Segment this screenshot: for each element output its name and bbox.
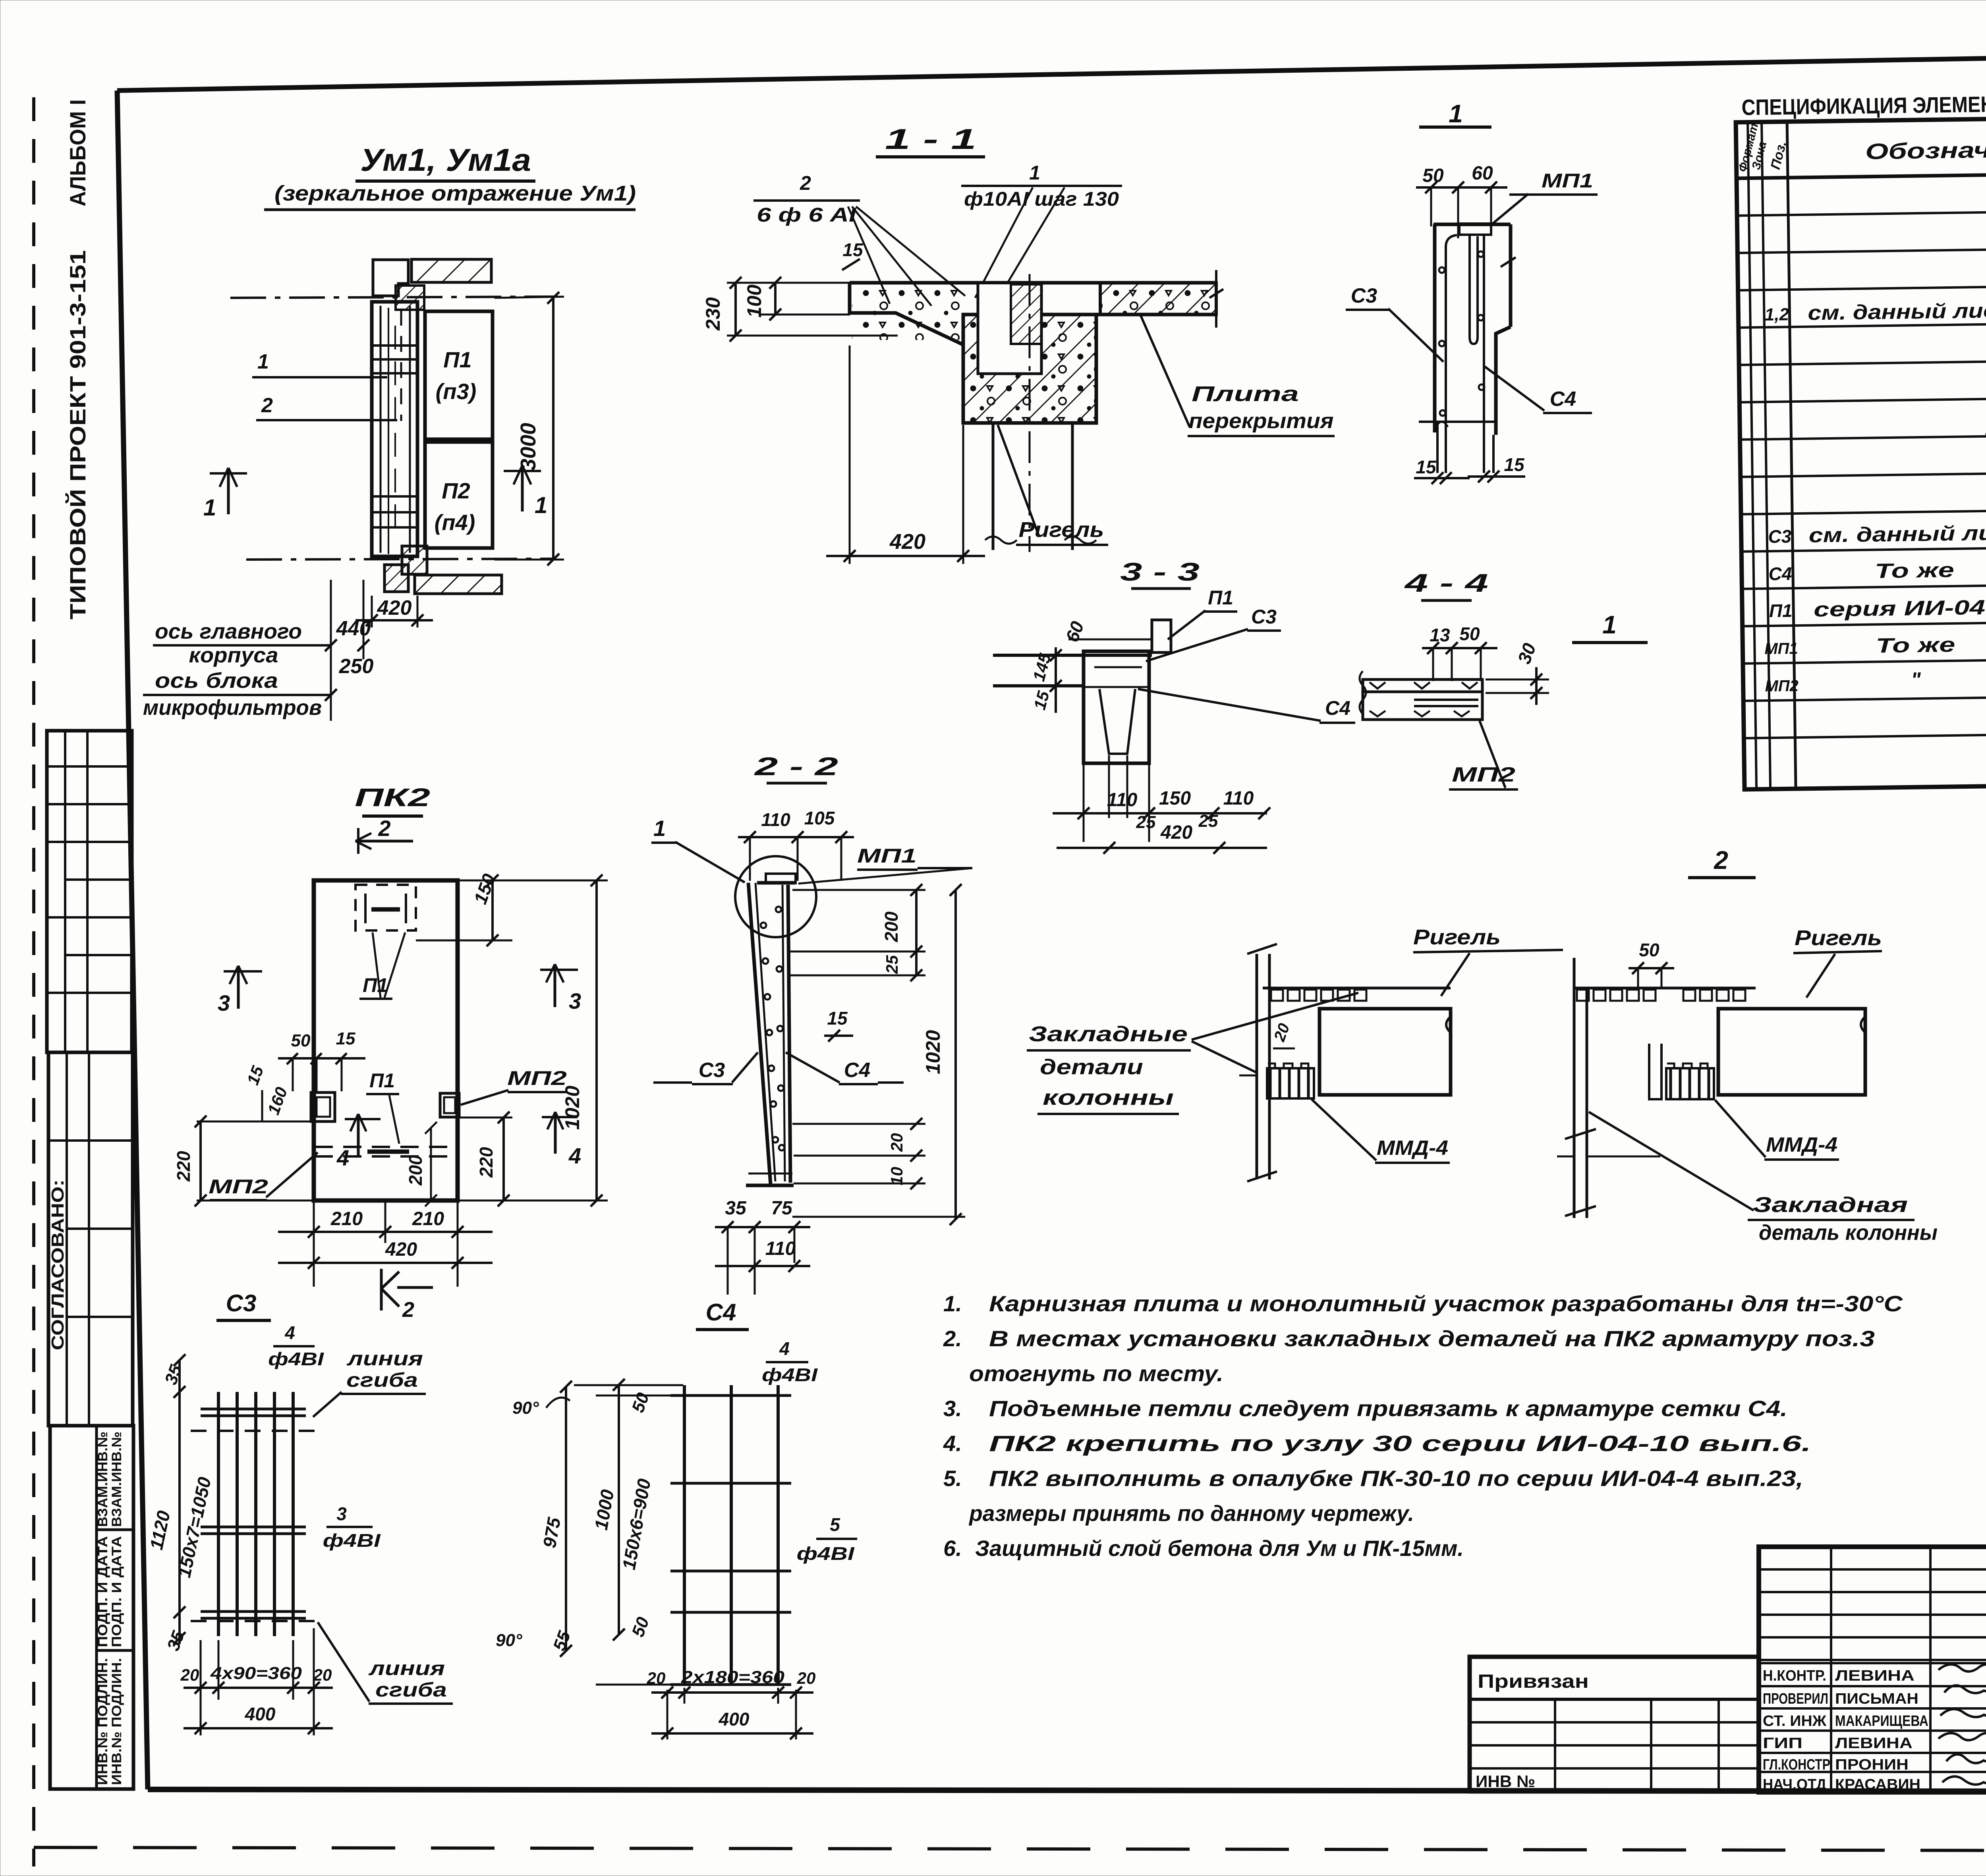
embed plate MP2 drawing <box>1360 671 1482 720</box>
svg-text:440: 440 <box>336 617 371 640</box>
svg-text:6.: 6. <box>943 1536 962 1561</box>
svg-text:Ум1, Ум1а: Ум1, Ум1а <box>360 142 531 178</box>
svg-text:20: 20 <box>313 1666 332 1684</box>
dim 230 <box>702 277 898 342</box>
panel section 2-2 <box>746 874 796 1185</box>
svg-text:П2: П2 <box>442 478 470 503</box>
monolith cornice outline <box>850 283 1216 423</box>
svg-text:Защитный слой бетона для Ум и: Защитный слой бетона для Ум и ПК-15мм. <box>975 1536 1464 1561</box>
svg-text:Подъемные петли следует привяз: Подъемные петли следует привязать к арма… <box>989 1396 1787 1421</box>
svg-text:линия: линия <box>346 1347 423 1370</box>
cornice bottom hatched small <box>402 546 427 574</box>
axis text os bloka mikrofiltrov <box>143 580 373 721</box>
svg-text:С4: С4 <box>706 1299 736 1326</box>
bottom dims 210 210 420 <box>278 1202 493 1287</box>
svg-text:2х180=360: 2х180=360 <box>681 1668 785 1687</box>
c4 mesh wires <box>670 1395 791 1685</box>
rigel block d2 <box>1718 1009 1865 1095</box>
rotated project text <box>65 250 90 620</box>
svg-text:1: 1 <box>1029 162 1040 184</box>
dim 420 bottom of section <box>826 345 985 564</box>
leader 2 <box>256 394 397 420</box>
c4 mesh bars <box>684 1385 778 1686</box>
svg-text:П1: П1 <box>363 974 388 996</box>
svg-text:колонны: колонны <box>1043 1086 1174 1110</box>
svg-text:Закладные: Закладные <box>1029 1022 1188 1046</box>
svg-text:ось главного: ось главного <box>155 620 302 643</box>
svg-text:50: 50 <box>1639 940 1660 960</box>
svg-text:3 - 3: 3 - 3 <box>1120 558 1200 586</box>
label MMD-4 d2 <box>1715 1100 1839 1160</box>
svg-text:сгиба: сгиба <box>346 1369 418 1391</box>
slab 3-3 <box>993 651 1152 763</box>
svg-text:1: 1 <box>257 350 269 373</box>
svg-text:3000: 3000 <box>516 423 540 471</box>
svg-text:сгиба: сгиба <box>375 1679 447 1701</box>
left small grid rows <box>1759 1568 1986 1571</box>
label MP1 <box>1490 170 1598 226</box>
svg-text:ПК2 крепить по узлу 30 серии И: ПК2 крепить по узлу 30 серии ИИ-04-10 вы… <box>989 1431 1811 1456</box>
svg-text:С3: С3 <box>699 1059 725 1082</box>
svg-text:20: 20 <box>647 1669 666 1687</box>
svg-text:3.: 3. <box>943 1396 962 1421</box>
title Um1 Um1a <box>264 142 636 210</box>
dims 50 60 <box>1416 163 1507 238</box>
title 4-4 <box>1404 569 1488 600</box>
svg-text:1: 1 <box>653 816 666 841</box>
svg-text:3: 3 <box>218 990 230 1015</box>
precast notch step <box>978 284 1041 374</box>
rotated small dims 15 160 <box>243 1063 291 1122</box>
svg-text:1020: 1020 <box>922 1030 944 1074</box>
svg-text:см. данный лист: см. данный лист <box>1808 521 1986 547</box>
svg-text:15: 15 <box>1416 457 1437 477</box>
svg-text:(зеркальное отражение Ум1): (зеркальное отражение Ум1) <box>274 181 636 205</box>
MP1 plate and anchor <box>1459 224 1491 344</box>
channel profile <box>1419 224 1516 473</box>
svg-text:2: 2 <box>800 172 811 194</box>
c3 mesh bars <box>218 1392 293 1636</box>
leader fan lines <box>848 187 1064 306</box>
c3 mesh wires <box>201 1409 306 1618</box>
svg-text:110: 110 <box>1107 789 1138 811</box>
svg-text:Ригель: Ригель <box>1019 518 1104 542</box>
svg-text:4: 4 <box>284 1322 295 1343</box>
dims 13 50 <box>1422 623 1497 681</box>
dims 15 15 bottom <box>1414 454 1525 484</box>
margin table upper <box>47 731 132 1052</box>
svg-text:1 - 1: 1 - 1 <box>885 124 976 155</box>
label 2/6f6AI <box>753 172 860 226</box>
svg-text:см. данный лист: см. данный лист <box>1808 299 1986 325</box>
svg-text:2: 2 <box>402 1298 414 1322</box>
leader 1 <box>252 350 387 377</box>
person rows <box>1763 1668 1928 1793</box>
axis dash-dot top <box>230 297 556 298</box>
shpon row d2 <box>1577 990 1745 1001</box>
svg-text:4: 4 <box>568 1143 581 1168</box>
svg-text:ПОДП. И ДАТА: ПОДП. И ДАТА <box>109 1536 124 1647</box>
svg-text:ВЗАМ.ИНВ.№: ВЗАМ.ИНВ.№ <box>95 1432 110 1527</box>
label P1 3-3 <box>1168 587 1237 639</box>
svg-text:АЛЬБОМ I: АЛЬБОМ I <box>65 99 90 207</box>
sheet edge left dashed <box>32 97 35 1866</box>
slab line d2 <box>1574 987 1756 990</box>
svg-text:4х90=360: 4х90=360 <box>210 1664 302 1683</box>
svg-text:ПИСЬМАН: ПИСЬМАН <box>1835 1691 1918 1707</box>
svg-text:2: 2 <box>261 394 273 417</box>
svg-text:4.: 4. <box>943 1431 962 1456</box>
frame bottom line <box>148 1789 1986 1792</box>
section 3 arrow left <box>218 966 262 1015</box>
label MMD-4 d1 <box>1312 1099 1450 1163</box>
svg-text:420: 420 <box>385 1239 417 1260</box>
label MP1 2-2 <box>798 845 972 884</box>
section 4 arrow left <box>336 1114 381 1170</box>
svg-text:ГЛ.КОНСТР: ГЛ.КОНСТР <box>1763 1756 1830 1773</box>
column d2 <box>1557 958 1660 1218</box>
svg-text:400: 400 <box>245 1704 276 1724</box>
svg-text:110: 110 <box>1223 788 1254 809</box>
svg-text:250: 250 <box>339 655 374 678</box>
svg-text:ТИПОВОЙ ПРОЕКТ 901-3-151: ТИПОВОЙ ПРОЕКТ 901-3-151 <box>65 250 90 620</box>
note 3 <box>943 1396 1787 1421</box>
svg-text:П1: П1 <box>369 1069 395 1092</box>
closure strip hatched d1 <box>1267 1063 1314 1098</box>
axis dash-dot bottom <box>246 559 556 560</box>
svg-text:1,2: 1,2 <box>1765 305 1789 324</box>
svg-text:То же: То же <box>1876 633 1955 658</box>
dims 50 15 above plate <box>278 1029 365 1091</box>
rotated album text <box>65 99 90 207</box>
svg-text:ф4ВI: ф4ВI <box>323 1530 381 1551</box>
label C4 top <box>1485 367 1592 413</box>
svg-text:15: 15 <box>827 1008 848 1029</box>
svg-text:ИНВ.№ ПОДЛИН.: ИНВ.№ ПОДЛИН. <box>109 1658 124 1785</box>
svg-text:2: 2 <box>1714 846 1728 874</box>
svg-text:100: 100 <box>743 284 765 318</box>
dim 100 <box>743 277 850 320</box>
svg-text:ЛЕВИНА: ЛЕВИНА <box>1835 1668 1915 1684</box>
svg-text:ВЗАМ.ИНВ.№: ВЗАМ.ИНВ.№ <box>109 1432 124 1527</box>
TITLE BLOCK <box>1759 1547 1986 1792</box>
c4 left dims <box>539 1379 683 1685</box>
svg-text:35: 35 <box>725 1198 747 1219</box>
loop pin P1 <box>1152 620 1171 652</box>
svg-text:110: 110 <box>765 1238 796 1259</box>
ridgel column hatched <box>963 315 1096 423</box>
svg-text:корпуса: корпуса <box>189 643 278 667</box>
monolith hatched key top <box>396 286 424 310</box>
slab line d1 <box>1263 987 1451 990</box>
svg-text:(п4): (п4) <box>435 510 475 535</box>
svg-text:ММД-4: ММД-4 <box>1377 1137 1448 1160</box>
label zakladnaya detal kolonny d2 <box>1589 1112 1938 1245</box>
svg-text:Ригель: Ригель <box>1413 925 1501 949</box>
svg-text:ГИП: ГИП <box>1763 1735 1802 1752</box>
svg-text:210: 210 <box>330 1208 363 1229</box>
svg-text:С3: С3 <box>1351 284 1377 307</box>
dims bottom 3-3 <box>1053 755 1270 854</box>
dims 110 105 <box>738 808 854 881</box>
svg-text:серия ИИ-04-4 вып. 23: серия ИИ-04-4 вып. 23 <box>1814 594 1986 621</box>
dim 50 d2 <box>1629 940 1674 988</box>
svg-text:1: 1 <box>535 492 547 518</box>
svg-text:ПОДП. И ДАТА: ПОДП. И ДАТА <box>95 1536 110 1647</box>
svg-text:Обозначение: Обозначение <box>1865 136 1986 164</box>
svg-text:КРАСАВИН: КРАСАВИН <box>1835 1776 1920 1793</box>
bottom dims 35 75 110 <box>715 1198 810 1295</box>
svg-text:60: 60 <box>1472 163 1493 184</box>
signatures <box>1938 1664 1986 1785</box>
label rigel d1 <box>1413 925 1563 996</box>
svg-text:детали: детали <box>1040 1055 1143 1079</box>
dim 3000 <box>495 292 564 566</box>
svg-text:200: 200 <box>881 911 902 942</box>
svg-text:420: 420 <box>1160 822 1192 843</box>
svg-text:2 - 2: 2 - 2 <box>754 752 838 781</box>
svg-text:То же: То же <box>1875 559 1955 583</box>
label 1/f10AI shag 130 <box>961 162 1122 210</box>
dim 150 top right <box>416 871 580 946</box>
frame top line <box>117 48 1986 91</box>
svg-text:С4: С4 <box>844 1059 871 1082</box>
label C3 top <box>1346 284 1443 362</box>
svg-text:МП1: МП1 <box>857 845 917 867</box>
svg-text:6 ф 6 АI: 6 ф 6 АI <box>757 204 856 226</box>
title C3 <box>216 1290 271 1320</box>
cornice hatched block left <box>373 260 408 296</box>
label P1 lower <box>366 1069 399 1144</box>
svg-text:С4: С4 <box>1325 697 1350 719</box>
svg-text:ИНВ.№ ПОДЛИН.: ИНВ.№ ПОДЛИН. <box>95 1658 110 1785</box>
svg-text:220: 220 <box>173 1151 194 1182</box>
column d1 <box>1239 944 1277 1181</box>
slab end break <box>1209 270 1223 328</box>
cornice bottom hatched right <box>415 575 502 594</box>
svg-text:105: 105 <box>804 808 835 828</box>
svg-text:20: 20 <box>887 1133 906 1152</box>
svg-text:3: 3 <box>336 1504 347 1524</box>
label C4 2-2 <box>786 1052 904 1084</box>
label MP2 bottom left <box>209 1152 318 1200</box>
svg-text:20: 20 <box>797 1669 816 1687</box>
svg-text:90°: 90° <box>496 1631 522 1650</box>
label zakladnye detali kolonny <box>1027 993 1358 1114</box>
c3 bottom dims <box>180 1628 333 1735</box>
title detail 2 <box>1688 846 1756 878</box>
svg-text:Карнизная плита и монолитный у: Карнизная плита и монолитный участок раз… <box>989 1291 1903 1316</box>
dim 200 center <box>405 1122 437 1206</box>
svg-text:ф10АI шаг 130: ф10АI шаг 130 <box>964 188 1119 210</box>
svg-text:С3: С3 <box>1768 526 1792 547</box>
svg-text:П1: П1 <box>1208 587 1233 609</box>
note 6 <box>943 1536 1464 1561</box>
rebar dots <box>1439 251 1484 416</box>
svg-text:5: 5 <box>830 1514 840 1535</box>
margin table middle with soglasovano <box>48 1052 133 1426</box>
dim 420 under plan <box>355 596 433 627</box>
dim 30 rotated <box>1486 640 1549 705</box>
svg-text:420: 420 <box>889 530 925 554</box>
svg-text:МП2: МП2 <box>1452 763 1515 786</box>
dim 15 middle <box>824 1008 853 1042</box>
PK2 outline <box>314 880 458 1200</box>
svg-text:линия: линия <box>368 1657 445 1679</box>
note 1 <box>943 1291 1903 1316</box>
svg-text:50: 50 <box>1459 623 1480 644</box>
axis text os glavnogo korpusa <box>153 617 371 667</box>
label MP2 4-4 <box>1449 721 1518 789</box>
svg-text:1.: 1. <box>943 1291 962 1316</box>
svg-text:МАКАРИЩЕВА: МАКАРИЩЕВА <box>1835 1713 1928 1729</box>
c3 left dims <box>146 1354 215 1653</box>
bottom loop dashed <box>315 1147 457 1156</box>
frame left line <box>117 91 148 1789</box>
svg-text:деталь колонны: деталь колонны <box>1759 1221 1938 1245</box>
label P1 upper <box>359 932 405 999</box>
rebar ties upper <box>373 345 416 373</box>
svg-text:400: 400 <box>719 1709 750 1729</box>
label C3 3-3 <box>1146 606 1281 661</box>
svg-text:ось блока: ось блока <box>155 669 278 693</box>
svg-text:220: 220 <box>476 1147 496 1178</box>
svg-text:4: 4 <box>336 1145 349 1170</box>
embed plate MP2 right small <box>440 1093 459 1117</box>
svg-text:ПК2 выполнить в опалубке ПК-30: ПК2 выполнить в опалубке ПК-30-10 по сер… <box>989 1466 1803 1491</box>
dim 20 d1 <box>1271 1021 1295 1048</box>
dim 1020 2-2 <box>792 884 965 1225</box>
rebar ties lower <box>373 496 416 527</box>
section mark 1 right <box>504 465 547 518</box>
svg-text:4 - 4: 4 - 4 <box>1404 569 1488 597</box>
note 5 <box>943 1466 1803 1526</box>
panel P1 <box>425 311 493 439</box>
cornice bottom hatched left <box>384 565 408 592</box>
svg-text:90°: 90° <box>512 1398 539 1418</box>
svg-text:МП1: МП1 <box>1764 640 1798 658</box>
svg-text:С3: С3 <box>1251 606 1277 628</box>
detail circle <box>735 856 816 937</box>
svg-text:15: 15 <box>1504 454 1525 475</box>
dims left 145 15 <box>1029 647 1084 713</box>
svg-text:Ригель: Ригель <box>1795 926 1882 950</box>
P1 dashed box <box>355 885 416 930</box>
mark K2 below plan <box>381 1269 433 1322</box>
label liniya sgiba top c3 <box>313 1347 426 1417</box>
svg-text:": " <box>1911 668 1922 691</box>
svg-text:ПРОНИН: ПРОНИН <box>1835 1756 1909 1773</box>
svg-text:С4: С4 <box>1550 388 1576 411</box>
svg-text:СТ. ИНЖ: СТ. ИНЖ <box>1763 1713 1827 1729</box>
dim 60 pin <box>1062 618 1152 645</box>
svg-text:1: 1 <box>1449 99 1463 128</box>
embed angle d2 <box>1649 1044 1661 1099</box>
svg-text:СОГЛАСОВАНО:: СОГЛАСОВАНО: <box>48 1179 68 1350</box>
c3 fold dash lines <box>191 1431 322 1621</box>
svg-text:В местах установки закладных д: В местах установки закладных деталей на … <box>989 1326 1875 1351</box>
svg-text:(п3): (п3) <box>436 379 477 404</box>
note 4 <box>943 1431 1811 1456</box>
svg-text:ПК2: ПК2 <box>355 783 430 812</box>
label MP2 right <box>461 1067 567 1105</box>
title 1-1 <box>876 124 985 157</box>
svg-text:230: 230 <box>702 297 724 331</box>
svg-text:Плита: Плита <box>1192 382 1299 406</box>
svg-text:С3: С3 <box>226 1290 257 1316</box>
svg-text:25: 25 <box>883 955 901 974</box>
mark 2 arrow <box>355 816 413 854</box>
c4 bottom dims <box>647 1668 816 1739</box>
title 2-2 <box>754 752 838 783</box>
rigel block d1 <box>1319 1009 1451 1095</box>
section 3 arrow right <box>540 964 581 1013</box>
svg-text:75: 75 <box>771 1198 793 1219</box>
svg-text:1020: 1020 <box>561 1086 583 1130</box>
c4 corner angle marks <box>496 1397 570 1650</box>
svg-text:15: 15 <box>842 239 864 260</box>
svg-text:15: 15 <box>336 1029 355 1048</box>
title 1 <box>1419 99 1491 128</box>
section 4 arrow right <box>542 1112 581 1168</box>
svg-text:25: 25 <box>1198 811 1218 831</box>
sheet edge bottom dashed <box>34 1847 1986 1851</box>
svg-text:200: 200 <box>405 1155 426 1186</box>
dims 20 10 lower right <box>792 1118 925 1189</box>
wall panel vertical <box>372 302 417 556</box>
title PK2 <box>355 783 430 816</box>
dim 1020 right <box>459 874 608 1206</box>
title detail 1 <box>1572 610 1648 643</box>
label Rigel <box>998 425 1108 545</box>
svg-text:отогнуть по месту.: отогнуть по месту. <box>969 1361 1223 1386</box>
svg-text:13: 13 <box>1430 625 1450 645</box>
svg-text:Н.КОНТР.: Н.КОНТР. <box>1763 1668 1826 1684</box>
note 2 <box>943 1326 1875 1386</box>
title block outer <box>1759 1547 1986 1792</box>
svg-text:ММД-4: ММД-4 <box>1766 1133 1837 1156</box>
svg-text:1: 1 <box>1602 610 1617 639</box>
svg-text:МП2: МП2 <box>1765 677 1799 695</box>
svg-text:ИНВ №: ИНВ № <box>1476 1772 1535 1791</box>
svg-text:ф4ВI: ф4ВI <box>762 1365 818 1385</box>
axis of column dash-dot <box>1029 274 1031 552</box>
svg-text:25: 25 <box>1136 813 1156 832</box>
svg-text:перекрытия: перекрытия <box>1189 409 1334 433</box>
title C4 <box>696 1299 749 1330</box>
panel P2 <box>425 442 493 548</box>
label rigel d2 <box>1793 926 1882 998</box>
svg-text:МП2: МП2 <box>209 1175 268 1198</box>
svg-text:1: 1 <box>203 495 216 521</box>
privyazan box <box>1470 1657 1759 1791</box>
svg-text:НАЧ.ОТД: НАЧ.ОТД <box>1763 1776 1826 1793</box>
dim 220 right <box>459 1112 512 1206</box>
rebar dots 2-2 <box>761 907 784 1150</box>
label 15 small <box>842 239 864 270</box>
svg-text:С4: С4 <box>1768 563 1792 584</box>
svg-text:ПРОВЕРИЛ: ПРОВЕРИЛ <box>1763 1691 1828 1707</box>
label Plita perekrytiya <box>1141 316 1335 436</box>
svg-text:20: 20 <box>180 1666 199 1684</box>
label 4/f4BI c4 <box>762 1338 818 1385</box>
svg-text:210: 210 <box>412 1208 444 1229</box>
svg-text:МП1: МП1 <box>1542 170 1593 192</box>
label 4/f4BI c3 <box>268 1322 325 1369</box>
SPEC TABLE <box>1735 84 1986 789</box>
svg-text:4: 4 <box>779 1338 790 1359</box>
section mark 1 left <box>203 468 247 521</box>
